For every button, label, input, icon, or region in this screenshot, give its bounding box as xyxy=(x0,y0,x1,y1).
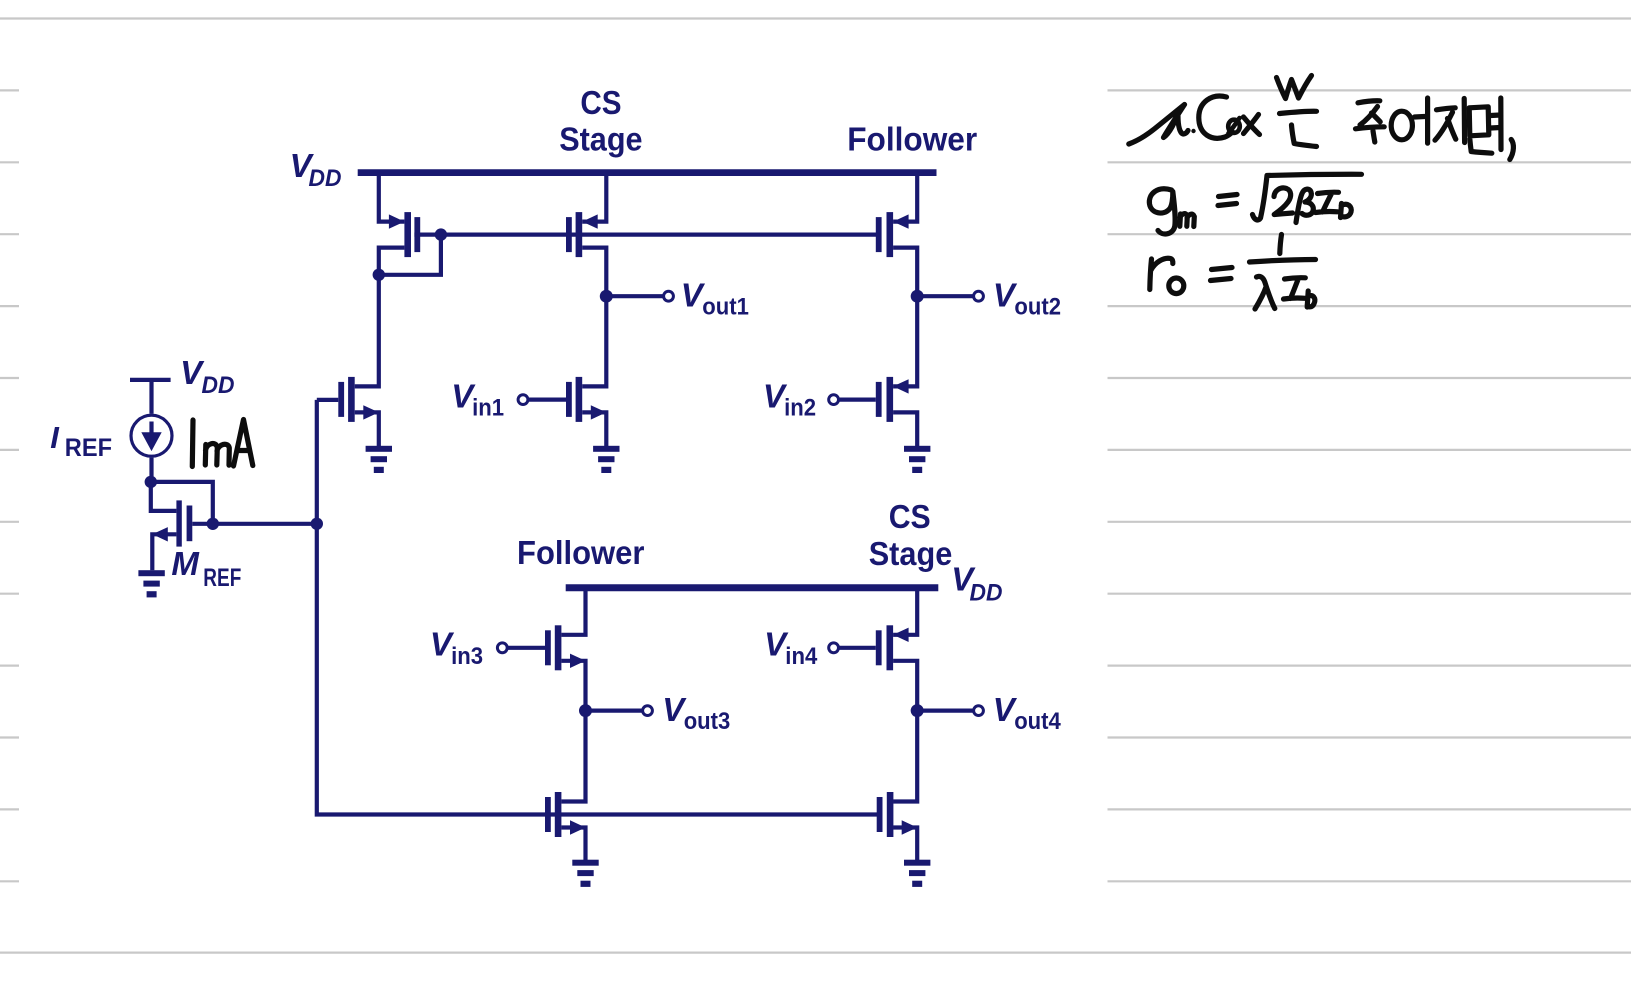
svg-text:out4: out4 xyxy=(1014,708,1061,735)
svg-text:M: M xyxy=(171,545,200,582)
svg-text:DD: DD xyxy=(202,372,235,399)
svg-text:DD: DD xyxy=(970,580,1003,607)
svg-text:DD: DD xyxy=(309,165,342,192)
svg-text:Follower: Follower xyxy=(847,121,977,158)
svg-text:Follower: Follower xyxy=(517,534,645,571)
svg-text:CS: CS xyxy=(889,498,931,535)
svg-text:REF: REF xyxy=(203,564,241,592)
svg-text:I: I xyxy=(50,420,60,455)
svg-text:in2: in2 xyxy=(784,395,816,422)
svg-text:in3: in3 xyxy=(451,643,483,670)
svg-text:in4: in4 xyxy=(785,643,818,670)
svg-text:out1: out1 xyxy=(702,293,749,320)
svg-text:out3: out3 xyxy=(684,708,731,735)
svg-text:in1: in1 xyxy=(472,395,504,422)
svg-text:out2: out2 xyxy=(1014,293,1061,320)
svg-text:CS: CS xyxy=(580,84,621,121)
svg-text:Stage: Stage xyxy=(559,121,642,158)
svg-text:REF: REF xyxy=(65,434,112,462)
svg-text:Stage: Stage xyxy=(869,535,953,572)
